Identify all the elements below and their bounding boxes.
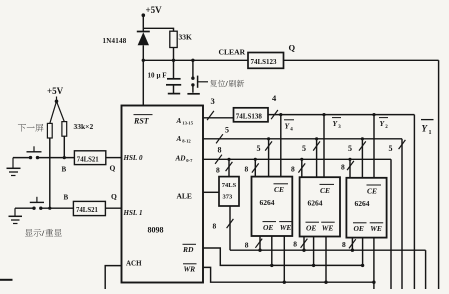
svg-text:WR: WR <box>184 264 196 273</box>
svg-text:8: 8 <box>341 162 345 171</box>
svg-text:8: 8 <box>218 145 222 154</box>
svg-text:A: A <box>176 135 182 143</box>
svg-text:ACH: ACH <box>126 259 142 267</box>
svg-text:8: 8 <box>293 240 297 249</box>
svg-text:8: 8 <box>245 241 249 250</box>
svg-text:74LS21: 74LS21 <box>77 156 100 163</box>
svg-text:HSI. 1: HSI. 1 <box>123 209 143 217</box>
svg-text:Q: Q <box>289 43 296 53</box>
svg-text:AD: AD <box>175 155 187 163</box>
svg-text:1: 1 <box>429 130 432 136</box>
svg-text:B: B <box>64 194 69 202</box>
svg-text:74LS: 74LS <box>222 182 237 189</box>
svg-text:WE: WE <box>370 224 382 233</box>
svg-text:8: 8 <box>216 166 220 175</box>
svg-text:6264: 6264 <box>260 198 275 207</box>
svg-text:0-7: 0-7 <box>186 158 193 163</box>
svg-text:33K: 33K <box>179 33 193 42</box>
svg-text:Q: Q <box>110 164 116 173</box>
svg-text:WE: WE <box>280 223 292 232</box>
svg-text:OE: OE <box>306 223 316 232</box>
svg-text:1N4148: 1N4148 <box>103 37 127 45</box>
svg-text:OE: OE <box>354 224 364 233</box>
svg-text:µ F: µ F <box>157 72 167 80</box>
svg-text:5: 5 <box>302 144 306 153</box>
svg-text:OE: OE <box>263 223 273 232</box>
svg-text:+5V: +5V <box>146 5 163 15</box>
svg-text:WE: WE <box>322 223 334 232</box>
svg-text:Q: Q <box>111 192 117 201</box>
svg-text:10: 10 <box>148 72 156 80</box>
svg-text:HSI. 0: HSI. 0 <box>123 154 144 162</box>
svg-text:5: 5 <box>225 126 229 135</box>
svg-text:74LS138: 74LS138 <box>236 112 263 120</box>
svg-text:5: 5 <box>257 144 261 153</box>
svg-text:CE: CE <box>320 186 330 195</box>
svg-text:6264: 6264 <box>308 199 323 208</box>
svg-text:6264: 6264 <box>355 199 370 208</box>
svg-text:CE: CE <box>367 186 377 195</box>
svg-text:CE: CE <box>274 185 284 194</box>
svg-text:5: 5 <box>389 144 393 153</box>
svg-text:ALE: ALE <box>177 192 192 201</box>
svg-text:74LS123: 74LS123 <box>251 58 278 66</box>
svg-text:13-15: 13-15 <box>182 121 193 126</box>
svg-text:8: 8 <box>245 164 249 173</box>
svg-text:RD: RD <box>182 245 194 254</box>
svg-text:8-12: 8-12 <box>182 138 191 143</box>
svg-text:+5V: +5V <box>47 86 64 96</box>
svg-text:B: B <box>62 166 67 174</box>
svg-text:373: 373 <box>223 194 234 201</box>
svg-text:74LS21: 74LS21 <box>76 207 99 214</box>
svg-text:RST: RST <box>133 117 150 126</box>
svg-text:8: 8 <box>342 240 346 249</box>
svg-text:A: A <box>176 117 182 125</box>
svg-text:8: 8 <box>291 164 295 173</box>
svg-text:CLEAR: CLEAR <box>219 48 246 57</box>
svg-text:3: 3 <box>211 96 215 106</box>
svg-text:33k×2: 33k×2 <box>74 122 94 131</box>
svg-text:8: 8 <box>213 221 217 230</box>
svg-text:5: 5 <box>348 144 352 153</box>
svg-text:8098: 8098 <box>148 226 164 235</box>
